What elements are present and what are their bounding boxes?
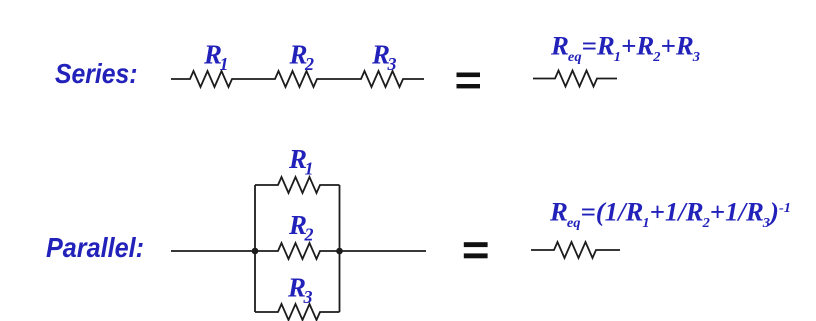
node left junction — [252, 248, 259, 255]
wire right vertical of parallel box — [339, 185, 341, 312]
resistor Req series equivalent — [533, 71, 617, 87]
svg-text:Series:: Series: — [55, 58, 138, 89]
resistor R3 parallel bottom branch — [255, 304, 340, 320]
svg-text:Req=(1/R1+1/R2+1/R3)-1: Req=(1/R1+1/R2+1/R3)-1 — [549, 198, 791, 232]
wire left vertical of parallel box — [254, 185, 256, 312]
resistor R1 parallel top branch — [255, 177, 340, 193]
node right junction — [336, 248, 343, 255]
equals sign bottom — [464, 242, 488, 258]
svg-text:Parallel:: Parallel: — [46, 232, 144, 263]
resistor R2 parallel middle branch — [255, 243, 340, 259]
wire parallel right lead — [340, 250, 427, 252]
wire parallel left lead — [171, 250, 255, 252]
equals sign top — [457, 73, 481, 89]
resistor Req parallel equivalent — [531, 242, 620, 258]
wire series chain with resistors R1 R2 R3 — [171, 71, 424, 87]
